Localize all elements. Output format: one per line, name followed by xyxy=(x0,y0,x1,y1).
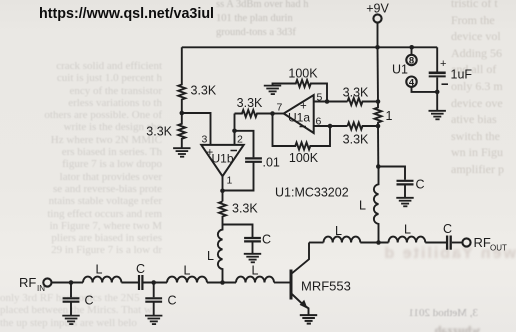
node: pin6 bias node xyxy=(376,124,381,129)
wire: U1a pin 6 xyxy=(314,125,348,127)
svg-text:3.3K: 3.3K xyxy=(232,202,258,216)
svg-text:3.3K: 3.3K xyxy=(237,96,263,110)
wire: collector to L4 xyxy=(309,242,324,244)
RF IN terminal xyxy=(19,275,52,293)
faint mirrored heading show-through, bottom-right xyxy=(328,245,516,263)
wire: C to RF out xyxy=(452,242,463,244)
node: U1a output / 100K feedback tap xyxy=(270,111,275,116)
svg-text:OUT: OUT xyxy=(490,244,507,253)
svg-text:1: 1 xyxy=(227,175,233,187)
svg-text:3.3K: 3.3K xyxy=(343,133,369,147)
wire: U1a output to feedback tap xyxy=(273,113,284,115)
svg-text:RF: RF xyxy=(474,235,491,250)
capacitor C (input shunt 1) xyxy=(63,283,94,316)
svg-text:L: L xyxy=(335,224,342,238)
svg-text:RF: RF xyxy=(19,275,36,290)
transistor Q1 MRF553 xyxy=(291,243,351,315)
svg-text:L: L xyxy=(359,199,366,213)
svg-text:3.3K: 3.3K xyxy=(343,86,369,100)
wire: U1b pin 2 up xyxy=(234,114,236,145)
svg-text:8: 8 xyxy=(409,56,414,67)
node: branch to bypass C and inductor xyxy=(376,164,381,169)
ground at 100K (pin5 side) xyxy=(264,86,281,95)
ground under input shunt C1 xyxy=(62,316,79,325)
wire: bias node to U1b pin 3 xyxy=(182,113,211,144)
node: pin6 / 100K junction xyxy=(328,124,333,129)
capacitor .01 (U1b feedback) xyxy=(223,131,280,191)
faint background show-through text, top-left xyxy=(216,0,366,39)
ground under U1b bypass C xyxy=(244,254,261,262)
wire: U1b pin1 output down xyxy=(222,176,224,201)
resistor 100K (to ground, pin5 side) xyxy=(273,67,328,102)
svg-text:3: 3 xyxy=(202,134,208,146)
U1 pin 4 bubble xyxy=(406,77,437,92)
node: input shunt C2 xyxy=(151,280,156,285)
wire: branch to bypass capacitor xyxy=(378,167,405,180)
node: rail / +9V column xyxy=(375,45,380,50)
faint background show-through text, bottom-left xyxy=(0,292,200,329)
svg-text:+: + xyxy=(440,58,446,70)
svg-text:U1b: U1b xyxy=(211,152,233,166)
node: U1b pin2 / .01 cap tap xyxy=(232,129,237,134)
wire: series C to L2 xyxy=(143,282,167,284)
ground under left divider xyxy=(173,148,190,157)
wire: L3 to base xyxy=(274,282,290,284)
capacitor C (input shunt 2) xyxy=(145,283,176,316)
svg-text:L: L xyxy=(207,249,214,263)
capacitor C (input series) xyxy=(136,262,145,290)
svg-text:U1: U1 xyxy=(392,63,408,77)
node: output line junction xyxy=(376,240,381,245)
wire: L4 to junction xyxy=(360,242,388,244)
wire: +9V down to rail xyxy=(377,23,379,48)
resistor 3.3K (pin6 bias) xyxy=(343,123,378,147)
resistor 3.3K (pin5 bias) xyxy=(343,86,378,106)
faint background show-through text, right column xyxy=(451,0,516,178)
svg-text:C: C xyxy=(85,294,94,308)
node: pin5 / 100K junction xyxy=(325,99,330,104)
svg-text:C: C xyxy=(443,222,452,236)
+9V supply terminal xyxy=(366,2,389,23)
svg-text:1: 1 xyxy=(386,109,393,123)
svg-text:L: L xyxy=(96,263,103,277)
inductor L (input 3) xyxy=(236,264,274,283)
svg-text:U1:MC33202: U1:MC33202 xyxy=(275,186,349,200)
node: input shunt C1 xyxy=(69,280,74,285)
resistor 100K (feedback, pin6 side) xyxy=(273,114,331,166)
inductor L (vertical, collector feed) xyxy=(359,167,379,243)
wire: supply column down to divider node xyxy=(377,47,380,101)
node: pin4 / capacitor negative xyxy=(435,90,440,95)
svg-text:100K: 100K xyxy=(288,67,318,81)
svg-text:IN: IN xyxy=(37,284,45,293)
resistor 3.3K (U1b pin2 to U1a output) xyxy=(235,96,273,117)
node: U1b pin3 bias node xyxy=(180,111,185,116)
ground under input shunt C2 xyxy=(145,316,162,325)
svg-text:C: C xyxy=(168,294,177,308)
svg-text:+9V: +9V xyxy=(366,2,389,16)
RF OUT terminal xyxy=(462,235,507,253)
node: pin5 bias node xyxy=(376,99,381,104)
resistor 1 (vertical) xyxy=(375,102,393,127)
U1 pin 8 bubble xyxy=(406,47,416,66)
svg-text:2: 2 xyxy=(237,134,243,146)
svg-text:C: C xyxy=(262,233,271,247)
wire: RF in lead xyxy=(52,282,83,284)
faint mirrored caption show-through xyxy=(388,307,478,319)
svg-text:L: L xyxy=(404,223,411,237)
inductor L (vertical, base feed) xyxy=(207,225,223,283)
resistor 3.3K (upper divider, left chain) xyxy=(178,47,217,113)
inductor L (output 1) xyxy=(324,224,361,243)
svg-text:4: 4 xyxy=(409,77,415,88)
svg-text:C: C xyxy=(136,262,145,276)
svg-text:7: 7 xyxy=(277,102,283,114)
node: base feed / input line junction xyxy=(220,280,225,285)
svg-text:100K: 100K xyxy=(289,151,319,165)
svg-text:3.3K: 3.3K xyxy=(191,84,217,98)
faint background show-through text, left column xyxy=(18,60,162,257)
capacitor C (U1b output bypass) xyxy=(244,233,271,254)
capacitor C bypass (mid-right) xyxy=(397,178,425,198)
op-amp U1a (points left) xyxy=(277,92,323,134)
svg-text:MRF553: MRF553 xyxy=(301,279,351,294)
svg-text:L: L xyxy=(184,264,191,278)
wire: top supply rail xyxy=(182,46,437,48)
URL caption xyxy=(39,6,214,22)
wire: L2 to junction xyxy=(207,282,236,284)
wire: U1a pin 5 xyxy=(314,101,348,103)
svg-text:.01: .01 xyxy=(263,156,280,170)
capacitor C 1uF polarized xyxy=(429,47,473,110)
inductor L (input 1) xyxy=(83,263,121,283)
svg-text:L: L xyxy=(252,264,259,278)
wire: down to output branch node xyxy=(377,126,379,167)
wire: L1 to series C xyxy=(121,282,138,284)
wire: L5 to output C xyxy=(425,242,446,244)
faint mirrored smudge at bottom edge xyxy=(400,323,480,332)
resistor 3.3K (U1b output) xyxy=(219,202,258,225)
wire: branch to audio bypass C xyxy=(223,225,253,238)
svg-text:C: C xyxy=(416,178,425,192)
node: U1b output / feedback junction xyxy=(220,189,225,194)
inductor L (input 2) xyxy=(167,264,207,283)
capacitor C (output series) xyxy=(443,222,452,250)
resistor 3.3K (lower divider, left chain) xyxy=(146,113,185,148)
inductor L (output 2) xyxy=(389,223,426,243)
svg-text:1uF: 1uF xyxy=(451,68,473,82)
ground under bypass C xyxy=(396,198,413,207)
op-amp U1b (points down) xyxy=(201,134,243,187)
svg-text:U1a: U1a xyxy=(288,111,310,125)
svg-text:3.3K: 3.3K xyxy=(146,125,172,139)
ground under emitter xyxy=(300,315,317,324)
node: rail / U1 pin 8 xyxy=(409,45,414,50)
ground under 1uF xyxy=(429,111,446,120)
